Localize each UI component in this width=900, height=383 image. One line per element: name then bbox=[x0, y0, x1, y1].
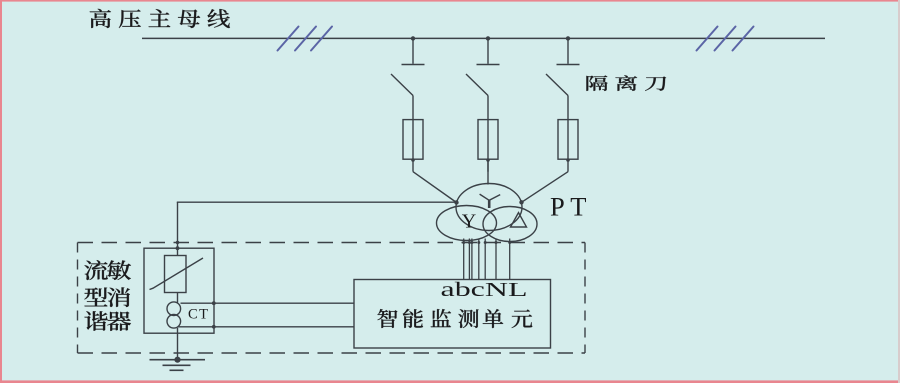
node: wire crosses eliminator case top bbox=[176, 246, 180, 250]
busbar break slashes (left) bbox=[278, 27, 333, 51]
wire: phase A fuse to PT primary bbox=[413, 172, 457, 203]
wire: phase C fuse to PT primary bbox=[522, 172, 569, 203]
busbar break slashes (right) bbox=[697, 27, 754, 51]
fuse FU3 bbox=[558, 120, 578, 160]
nodes: secondary wires cross dashed enclosure bbox=[462, 241, 511, 244]
PT winding circle (open delta, bottom-right) bbox=[483, 207, 537, 242]
node: lower wire crosses case edge bbox=[212, 325, 216, 329]
current transformer CT coil bbox=[167, 302, 181, 328]
disconnector QS2 fixed contact bbox=[477, 64, 500, 66]
wire: blade to fuse FU3 bbox=[567, 96, 569, 172]
disconnector QS1 fixed contact bbox=[402, 64, 425, 66]
disconnector QS3 blade (隔离刀) bbox=[546, 74, 568, 96]
dashed enclosure (monitoring system boundary) bbox=[78, 243, 586, 354]
node: upper wire crosses case edge bbox=[212, 301, 216, 305]
node: busbar tap phase B bbox=[486, 36, 490, 40]
wire: PT neutral to harmonic eliminator (horizontal) bbox=[177, 201, 457, 203]
wire: CT secondary upper to monitoring unit bbox=[181, 302, 355, 304]
label 型消 (row 2) bbox=[84, 287, 130, 307]
PT winding circle (primary, top) bbox=[456, 184, 522, 231]
node: PT primary left terminal bbox=[454, 200, 458, 204]
wire: busbar to disconnector QS1 bbox=[412, 38, 414, 63]
ground symbol bbox=[150, 360, 206, 371]
disconnector QS1 blade (隔离刀) bbox=[391, 74, 413, 96]
wire: eliminator to ground bbox=[177, 328, 179, 360]
node: busbar tap phase C bbox=[566, 36, 570, 40]
node: busbar tap phase A bbox=[411, 36, 415, 40]
node: ground junction bbox=[174, 357, 180, 363]
svg-text:abcNL: abcNL bbox=[441, 279, 528, 301]
PT open-delta symbol bbox=[511, 213, 527, 227]
wire: phase B fuse to PT primary bbox=[487, 160, 489, 185]
label 高压主母线 (HV main busbar) bbox=[90, 9, 230, 28]
PT secondary wires a b c N L bundle bbox=[464, 239, 510, 280]
wire: blade to fuse FU1 bbox=[412, 96, 414, 172]
intelligent monitoring unit box bbox=[354, 280, 551, 349]
node: wire crosses dashed enclosure bbox=[176, 241, 179, 244]
wire: blade to fuse FU2 bbox=[487, 96, 489, 172]
varistor RV (nonlinear resistor) body bbox=[165, 256, 187, 293]
busbar wire 高压主母线 bbox=[142, 37, 825, 39]
node: PT primary right terminal bbox=[519, 200, 523, 204]
svg-text:PT: PT bbox=[550, 192, 592, 222]
wire: varistor to CT bbox=[177, 293, 179, 303]
node: fuse FU1 bottom bbox=[411, 158, 415, 162]
svg-text:CT: CT bbox=[188, 306, 210, 322]
wire: harmonic eliminator drop (vertical) bbox=[177, 202, 179, 255]
disconnector QS3 fixed contact bbox=[557, 64, 580, 66]
label 流敏 (row 1) bbox=[84, 260, 131, 280]
label 谐器 (row 3) bbox=[84, 311, 130, 331]
harmonic eliminator case bbox=[144, 248, 214, 333]
varistor RV slash with foot bbox=[150, 258, 204, 290]
svg-text:Y: Y bbox=[462, 211, 476, 233]
node: fuse FU2 bottom bbox=[486, 158, 490, 162]
label 隔离刀 (disconnector) bbox=[586, 75, 666, 91]
wire: busbar to disconnector QS3 bbox=[567, 38, 569, 63]
disconnector QS2 blade (隔离刀) bbox=[466, 74, 488, 96]
label 智能监测单元 (intelligent monitoring unit) bbox=[377, 309, 532, 328]
PT winding circle (secondary star, bottom-left) bbox=[437, 206, 497, 241]
fuse FU1 bbox=[403, 120, 423, 160]
fuse FU2 bbox=[478, 120, 498, 160]
PT primary star (Y) symbol bbox=[480, 194, 501, 208]
wire: busbar to disconnector QS2 bbox=[487, 38, 489, 63]
node: fuse FU3 bottom bbox=[566, 158, 570, 162]
wire: CT secondary lower to monitoring unit bbox=[178, 326, 355, 328]
